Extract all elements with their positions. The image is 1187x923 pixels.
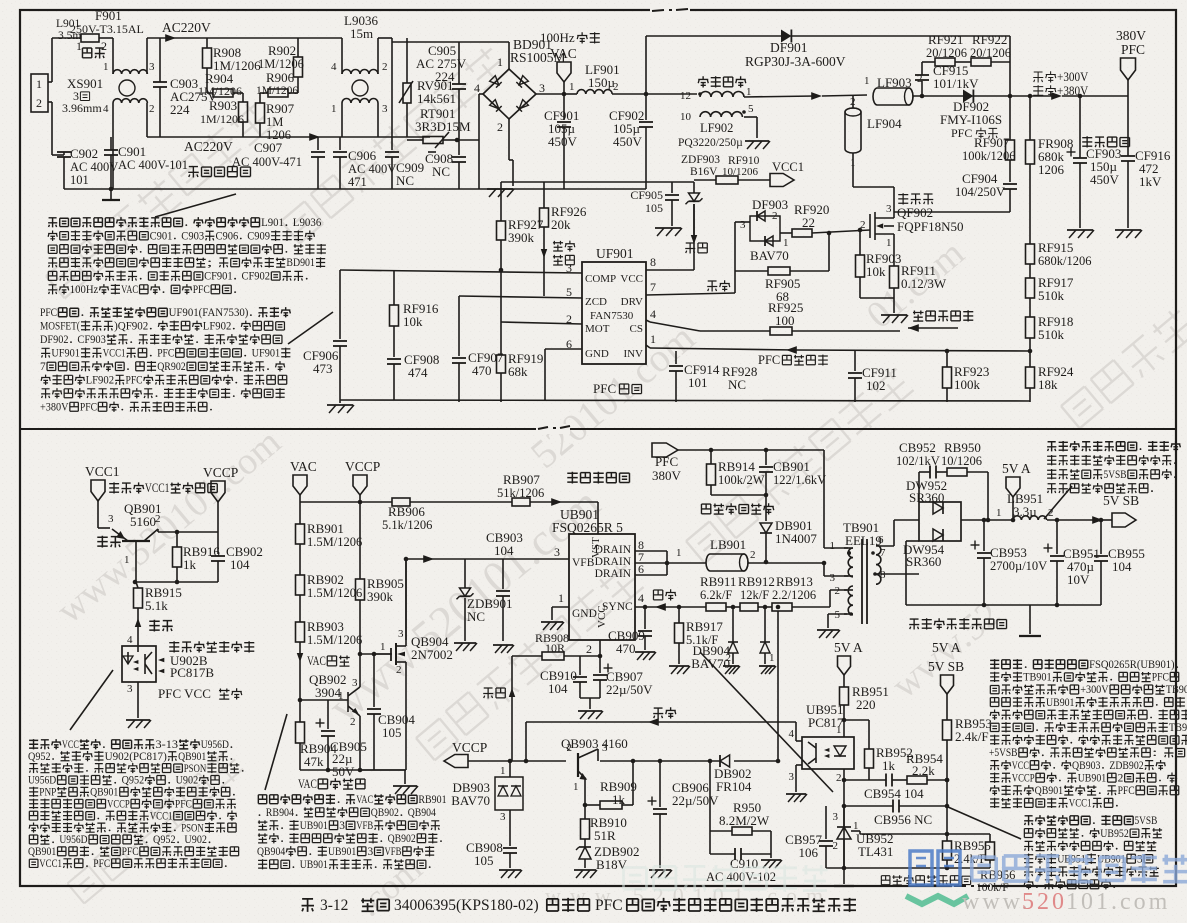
svg-text:VFB: VFB — [385, 846, 402, 858]
resistor RB915 — [136, 582, 138, 588]
wire supply VCCP riser — [511, 656, 513, 761]
ground bus — [64, 188, 646, 190]
svg-text:PFC: PFC — [1118, 785, 1135, 797]
svg-text:20/1206: 20/1206 — [970, 46, 1011, 60]
svg-text:105: 105 — [382, 725, 402, 740]
label feedback 反馈 — [653, 590, 662, 600]
annotation regulation control — [1024, 816, 1033, 826]
ground QB904 bus — [360, 769, 406, 771]
svg-text:VCC1: VCC1 — [103, 348, 126, 360]
resistor RB954 — [907, 776, 927, 784]
svg-text:2: 2 — [155, 513, 161, 525]
svg-text:3: 3 — [886, 203, 892, 215]
svg-text:L9036: L9036 — [293, 217, 322, 229]
svg-text:1: 1 — [886, 237, 892, 249]
svg-text:www.: www. — [962, 889, 1030, 915]
capacitor CF911 — [854, 351, 856, 371]
svg-text:PFC: PFC — [40, 307, 57, 319]
svg-text:RB906: RB906 — [388, 504, 425, 519]
svg-text:CB953: CB953 — [990, 545, 1027, 560]
label zero-cross 过零检测 — [553, 241, 563, 251]
svg-text:RB913: RB913 — [776, 574, 813, 589]
wire QB903 collector row — [600, 760, 720, 762]
label spike absorb 尖峰脉冲吸收 — [701, 504, 710, 514]
ground CB903 — [493, 644, 513, 646]
svg-text:CF901: CF901 — [204, 271, 233, 283]
label optocoupler 开关机光耦合器 — [169, 641, 179, 652]
svg-text:2: 2 — [835, 585, 841, 597]
svg-text:1M/1206: 1M/1206 — [256, 85, 298, 97]
zener ZDB902 — [576, 847, 591, 859]
svg-text:SR360: SR360 — [909, 490, 944, 505]
svg-text:C901: C901 — [118, 144, 146, 159]
svg-text:VAC: VAC — [290, 459, 317, 474]
svg-text:3.3µ: 3.3µ — [1013, 504, 1037, 519]
capacitor CF902 — [645, 94, 647, 120]
svg-text:QB904: QB904 — [408, 807, 437, 819]
callout line anti-interference — [155, 194, 236, 217]
svg-text:15m: 15m — [350, 26, 373, 41]
wire AC220V lower bus — [146, 103, 148, 137]
svg-text:3: 3 — [398, 628, 404, 640]
resistor R906 — [268, 89, 288, 97]
svg-text:3: 3 — [833, 811, 839, 823]
svg-text:UF901: UF901 — [596, 246, 634, 261]
capacitor C901 — [110, 137, 112, 150]
svg-text:C907: C907 — [254, 140, 283, 155]
capacitor C909 — [391, 38, 393, 88]
svg-text:5: 5 — [748, 103, 754, 115]
svg-text:510k: 510k — [1038, 288, 1065, 303]
resistor R907 — [259, 93, 261, 103]
svg-text:U956D: U956D — [59, 834, 87, 846]
svg-text:FR104: FR104 — [716, 779, 752, 794]
svg-text:PFC VCC: PFC VCC — [158, 686, 211, 701]
svg-text:UB901: UB901 — [300, 820, 328, 832]
resistor RF923 — [946, 351, 948, 367]
svg-text:520: 520 — [1022, 889, 1067, 915]
svg-text:224: 224 — [170, 102, 190, 117]
svg-text:DRV: DRV — [621, 296, 643, 308]
switch MOSFET QF902 — [898, 193, 908, 204]
svg-text:1: 1 — [331, 103, 337, 115]
svg-text:U956D: U956D — [28, 775, 56, 787]
svg-text:NC: NC — [467, 609, 485, 624]
ground UB901 — [541, 621, 563, 623]
svg-text:7: 7 — [40, 361, 46, 373]
resistor RF903 — [859, 230, 861, 255]
svg-text:+380V: +380V — [1057, 84, 1088, 98]
svg-text:14k561: 14k561 — [417, 91, 456, 106]
svg-text:101.com: 101.com — [1066, 889, 1170, 915]
svg-text:R902: R902 — [268, 43, 296, 58]
svg-text:PFC: PFC — [758, 353, 780, 367]
svg-text:AC 400V-101: AC 400V-101 — [118, 158, 188, 172]
divider line — [20, 428, 1176, 430]
capacitor C908 — [458, 140, 460, 155]
svg-text:1: 1 — [558, 591, 564, 605]
resistor RB904 — [299, 700, 301, 722]
svg-text:FMY-I106S: FMY-I106S — [940, 112, 1002, 127]
svg-text:3-12: 3-12 — [320, 897, 348, 914]
svg-text:PFC: PFC — [1152, 672, 1169, 684]
resistor R904 — [213, 89, 233, 97]
svg-text:NC: NC — [396, 173, 414, 188]
callout line PFC annotation — [288, 312, 333, 344]
svg-text:RF921: RF921 — [928, 32, 963, 47]
svg-text:10/1206: 10/1206 — [722, 166, 759, 178]
svg-text:2700µ/10V: 2700µ/10V — [990, 559, 1047, 573]
watermark logo text — [972, 854, 1187, 883]
svg-text:22µ/50V: 22µ/50V — [606, 682, 653, 697]
svg-text:VCCP: VCCP — [452, 740, 487, 755]
svg-text:PC817B: PC817B — [170, 665, 214, 680]
svg-text:2.2/1206: 2.2/1206 — [772, 588, 816, 602]
svg-text:Q952: Q952 — [153, 834, 176, 846]
wire QB901 base bus — [135, 581, 218, 583]
svg-text:104: 104 — [548, 681, 568, 696]
wire TB901 pin5 ground — [828, 613, 847, 615]
svg-text:UF901: UF901 — [51, 348, 80, 360]
capacitor CB954 — [844, 779, 886, 781]
resistor RB953 — [943, 720, 952, 740]
svg-text:+300V: +300V — [1080, 684, 1109, 696]
resistor RB951 — [840, 687, 849, 705]
svg-text:105: 105 — [474, 853, 494, 868]
svg-text:5V SB: 5V SB — [928, 659, 964, 674]
resistor RF911 — [890, 266, 899, 288]
capacitor CB902 — [217, 532, 219, 554]
label supply 供电 — [685, 243, 695, 254]
svg-text:CS: CS — [630, 323, 643, 335]
svg-text:FSQ0265R(UB901): FSQ0265R(UB901) — [1089, 659, 1175, 671]
svg-text:101: 101 — [688, 375, 708, 390]
svg-text:VCC: VCC — [1012, 760, 1029, 772]
capacitor CF905 — [671, 182, 673, 193]
svg-text:VCC: VCC — [620, 273, 643, 285]
wire DF901 left drop — [645, 36, 647, 94]
svg-text:PSON: PSON — [181, 822, 204, 834]
svg-text:SR360: SR360 — [906, 554, 941, 569]
svg-text:COMP: COMP — [585, 273, 616, 285]
svg-text:2: 2 — [149, 103, 155, 115]
capacitor CB901 — [765, 450, 767, 465]
svg-text:10k: 10k — [866, 264, 886, 279]
wire LB901 out — [748, 562, 824, 564]
svg-text:RB914: RB914 — [718, 459, 755, 474]
svg-text:RB901: RB901 — [307, 521, 344, 536]
svg-text:U902: U902 — [176, 775, 199, 787]
svg-text:5VSB: 5VSB — [1135, 815, 1158, 827]
wire DRV row — [646, 293, 735, 295]
svg-text:B16V: B16V — [690, 166, 718, 178]
capacitor CB907 — [599, 656, 601, 673]
svg-text:7: 7 — [650, 280, 656, 294]
svg-text:VFB: VFB — [356, 820, 373, 832]
connector XS901 — [31, 74, 48, 112]
svg-text:51R: 51R — [594, 828, 616, 843]
svg-text:3: 3 — [382, 103, 388, 115]
label aux power circuit 副电源电路 — [567, 472, 577, 484]
svg-text:150µ: 150µ — [588, 75, 616, 90]
svg-text:CB901: CB901 — [773, 459, 810, 474]
svg-text:QB901: QB901 — [1035, 785, 1064, 797]
svg-text:Q952: Q952 — [28, 751, 51, 763]
svg-text:3: 3 — [339, 820, 345, 832]
label anti-interference 抗干扰电路 — [188, 167, 198, 178]
svg-text:104: 104 — [494, 543, 514, 558]
capacitor CF907 — [458, 296, 460, 356]
svg-text:BAV70: BAV70 — [451, 793, 490, 808]
svg-text:VFB: VFB — [572, 557, 595, 569]
svg-text:RGP30J-3A-600V: RGP30J-3A-600V — [745, 54, 846, 69]
capacitor C907 — [317, 137, 319, 150]
wire PFC to TB901 — [678, 449, 824, 451]
svg-text:QB901: QB901 — [28, 846, 56, 858]
annotation secondary rectifier — [1047, 442, 1056, 452]
label fuse CJK 熔丝 — [82, 48, 91, 58]
wire QB904 gate — [360, 653, 392, 655]
wire sample bottom bus — [340, 400, 1030, 401]
svg-text::: : — [1152, 747, 1163, 759]
svg-text:3: 3 — [352, 677, 358, 689]
resistor RF915 — [1026, 244, 1035, 264]
svg-text:QR902: QR902 — [157, 361, 186, 373]
ground CF916 — [1115, 229, 1141, 231]
svg-text:FSQ0265R 5: FSQ0265R 5 — [552, 520, 623, 535]
svg-text:3: 3 — [368, 846, 374, 858]
wire BD901 output — [536, 93, 564, 95]
svg-text:CF903: CF903 — [77, 334, 106, 346]
label secondary rectifier 二次整流滤波电路 — [909, 619, 919, 630]
capacitor CB904 — [367, 708, 381, 710]
svg-text:390k: 390k — [508, 230, 535, 245]
svg-text:5V A: 5V A — [1002, 461, 1031, 476]
svg-text:RB901: RB901 — [418, 794, 446, 806]
svg-text:L901: L901 — [261, 217, 284, 229]
wire PFC output bus — [973, 95, 1010, 97]
svg-text:1M/1206: 1M/1206 — [200, 112, 244, 126]
svg-text:DF903: DF903 — [752, 197, 788, 212]
capacitor CB909 — [644, 607, 646, 629]
svg-text:RB907: RB907 — [503, 472, 540, 487]
svg-text:QB902: QB902 — [371, 807, 400, 819]
wire UB952 ref row — [851, 830, 860, 832]
svg-text:68k: 68k — [508, 364, 528, 379]
label switch arrow 开关 — [135, 618, 142, 627]
diode DF901 — [646, 35, 781, 37]
svg-text:UB952: UB952 — [1100, 828, 1129, 840]
svg-text:GND: GND — [572, 608, 597, 620]
svg-text:1kV: 1kV — [1139, 174, 1162, 189]
capacitor C903 — [159, 38, 161, 82]
capacitor CB956 — [844, 805, 893, 807]
svg-text:104/250V: 104/250V — [955, 185, 1005, 199]
diode DF902 — [963, 90, 973, 103]
svg-text:RF907: RF907 — [974, 135, 1010, 150]
svg-text:TL431: TL431 — [858, 844, 893, 859]
svg-text:DRAIN: DRAIN — [595, 556, 632, 568]
svg-text:QB904: QB904 — [257, 846, 286, 858]
svg-text:VAC: VAC — [307, 654, 326, 668]
svg-text:VCC1: VCC1 — [85, 464, 120, 479]
wire PFC sample row — [650, 348, 795, 350]
svg-text:100k: 100k — [954, 377, 981, 392]
svg-text:+5VSB: +5VSB — [989, 747, 1018, 759]
svg-text:PSON: PSON — [184, 763, 207, 775]
fuse F901 — [81, 34, 99, 42]
svg-text:RB903: RB903 — [307, 619, 344, 634]
svg-text:3R3D15M: 3R3D15M — [415, 119, 471, 134]
callout line VCC annotation — [70, 670, 113, 730]
svg-text:L901: L901 — [56, 18, 81, 30]
resistor FR908 — [1029, 96, 1031, 140]
svg-text:C903: C903 — [181, 230, 204, 242]
svg-text:101: 101 — [70, 173, 89, 187]
svg-text:1: 1 — [836, 724, 842, 736]
svg-text:1: 1 — [103, 61, 109, 73]
transistor QB904 — [405, 559, 407, 640]
resistor RF917 — [1026, 278, 1035, 298]
svg-text:3: 3 — [149, 61, 155, 73]
svg-text:ZCD: ZCD — [585, 296, 607, 308]
wire VAC bus — [300, 501, 392, 503]
capacitor CF904 — [1003, 183, 1017, 185]
svg-text:MOSFET(: MOSFET( — [40, 321, 80, 333]
svg-text:4: 4 — [650, 307, 656, 321]
svg-text:NC: NC — [728, 377, 746, 392]
label VCC1 control circuit — [109, 482, 119, 493]
ground optocoupler — [137, 682, 139, 718]
svg-text:1k: 1k — [183, 557, 197, 572]
wire 5VSB out — [1047, 519, 1096, 521]
resistor RB911 — [706, 603, 726, 611]
figure title — [302, 899, 314, 912]
svg-text:10: 10 — [680, 111, 692, 123]
capacitor CB906 — [659, 761, 661, 807]
svg-text:104: 104 — [1112, 559, 1132, 574]
capacitor CB908 — [509, 810, 511, 846]
svg-text:RB912: RB912 — [738, 574, 775, 589]
resistor RF926 — [543, 182, 545, 208]
svg-text:VCC1: VCC1 — [39, 858, 62, 870]
svg-text:CF905: CF905 — [630, 188, 663, 202]
svg-text:MOT: MOT — [585, 323, 610, 335]
svg-text:2: 2 — [567, 742, 573, 754]
svg-text:TB901: TB901 — [1023, 672, 1052, 684]
capacitor CB905 — [327, 700, 329, 729]
resistor RB903 — [296, 622, 305, 642]
svg-text:20k: 20k — [551, 217, 571, 232]
svg-text:RF922: RF922 — [972, 32, 1007, 47]
svg-text:6: 6 — [638, 562, 644, 576]
svg-text:2: 2 — [382, 61, 388, 73]
svg-text:RF915: RF915 — [1038, 240, 1073, 255]
svg-text:QB902: QB902 — [388, 833, 417, 845]
svg-text:2: 2 — [101, 39, 107, 53]
svg-text:VCC1: VCC1 — [1069, 798, 1092, 810]
svg-text:VCCP: VCCP — [107, 799, 130, 811]
svg-text:1k: 1k — [882, 758, 896, 773]
svg-text:2: 2 — [396, 664, 402, 676]
svg-text:1N4007: 1N4007 — [775, 531, 817, 546]
svg-text:LF902: LF902 — [203, 321, 232, 333]
resistor RB916 — [176, 532, 178, 547]
wire MOT row — [501, 322, 582, 324]
svg-text:5V A: 5V A — [834, 640, 863, 655]
svg-text:)QF902: )QF902 — [114, 321, 148, 333]
svg-text:U902: U902 — [184, 834, 207, 846]
label VAC sampling — [297, 653, 304, 662]
svg-text:SYNC: SYNC — [602, 601, 633, 613]
svg-text:FAN7530: FAN7530 — [590, 310, 634, 322]
svg-text:5160: 5160 — [130, 514, 156, 529]
svg-text:QB901: QB901 — [90, 787, 118, 799]
capacitor CF915 — [921, 81, 923, 96]
svg-text:450V: 450V — [613, 134, 643, 149]
svg-text:F901: F901 — [95, 8, 122, 23]
callout line secondary annotation — [1044, 486, 1072, 519]
svg-text:2: 2 — [750, 549, 756, 561]
svg-text:8: 8 — [650, 255, 656, 269]
svg-text:380V: 380V — [652, 468, 682, 483]
wire VCC pin supply — [646, 269, 694, 271]
svg-text:1M: 1M — [266, 115, 283, 129]
diode DW952 symbol — [933, 502, 943, 514]
svg-text:AC220V: AC220V — [184, 139, 233, 154]
wire UB901 gnd pin — [552, 606, 569, 608]
svg-text:474: 474 — [408, 365, 428, 380]
svg-text:DRAIN: DRAIN — [595, 568, 632, 580]
svg-text:Q952: Q952 — [122, 775, 145, 787]
wire BD901 pin4 to RT901 node — [479, 93, 483, 95]
svg-text:1: 1 — [497, 55, 503, 69]
svg-text:471: 471 — [348, 175, 367, 189]
svg-text:RB917: RB917 — [686, 619, 723, 634]
svg-text:3: 3 — [789, 771, 795, 783]
svg-text:1: 1 — [569, 81, 575, 93]
svg-text:R907: R907 — [266, 101, 295, 116]
svg-text:102: 102 — [866, 378, 886, 393]
watermark logo book icon — [910, 851, 960, 885]
wire DRAIN node — [635, 550, 667, 552]
svg-text:1M/1206: 1M/1206 — [198, 84, 242, 98]
svg-text:3: 3 — [554, 545, 560, 559]
svg-text:100: 100 — [775, 313, 795, 328]
dual diode DW952 DW954 — [919, 502, 961, 541]
svg-text:QB903: QB903 — [1072, 760, 1101, 772]
svg-text:5.1k/1206: 5.1k/1206 — [382, 518, 432, 532]
svg-text:100Hz: 100Hz — [70, 284, 99, 296]
svg-text:PFC: PFC — [175, 799, 192, 811]
svg-text:6: 6 — [878, 534, 884, 546]
capacitor CF906 — [339, 270, 341, 339]
svg-text:2N7002: 2N7002 — [411, 647, 453, 662]
svg-text:3: 3 — [602, 742, 608, 754]
wire pin1 junction — [842, 718, 847, 723]
svg-text:RB902: RB902 — [307, 572, 344, 587]
svg-text:CF904: CF904 — [962, 171, 998, 186]
svg-text:450V: 450V — [548, 134, 578, 149]
svg-text:100Hz: 100Hz — [540, 30, 575, 45]
svg-text:2: 2 — [497, 120, 503, 134]
svg-text:AC220V: AC220V — [162, 20, 211, 35]
svg-text:RB911: RB911 — [700, 574, 736, 589]
wire GND pin — [545, 348, 582, 350]
svg-text:104: 104 — [230, 557, 250, 572]
svg-text:DF902: DF902 — [40, 334, 69, 346]
zener ZDB901 — [464, 559, 466, 588]
